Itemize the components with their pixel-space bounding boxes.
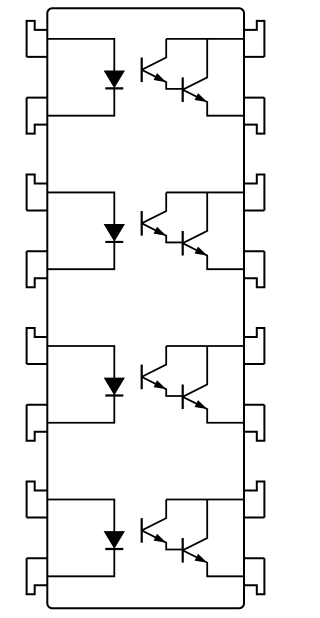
pin 15 (emitter, channel 1) <box>244 98 264 134</box>
wire: collector rail to pin 16, channel 1 <box>166 38 244 40</box>
wire: collector rail to pin 10, channel 4 <box>166 499 244 501</box>
pin 6 (LED 3 cathode) <box>27 405 48 441</box>
pin 13 (emitter, channel 2) <box>244 251 264 287</box>
LED D2 <box>105 225 125 242</box>
pin 16 (collector, channel 1) <box>244 21 264 57</box>
phototransistor Q1a (Darlington input) <box>142 39 183 89</box>
phototransistor Q4a (Darlington input) <box>142 500 183 550</box>
transistor Q3b (Darlington output) <box>183 346 244 423</box>
pin 11 (emitter, channel 3) <box>244 405 264 441</box>
pin 1 (LED 1 anode) <box>27 21 48 57</box>
wire: LED D2 cathode to pin 4 <box>47 241 114 269</box>
LED D4 <box>105 532 125 549</box>
wire: collector rail to pin 12, channel 3 <box>166 345 244 347</box>
wire: pin 1 to LED D1 anode <box>47 39 114 71</box>
transistor Q4b (Darlington output) <box>183 500 244 577</box>
wire: LED D3 cathode to pin 6 <box>47 394 114 422</box>
pin 9 (emitter, channel 4) <box>244 558 264 594</box>
wire: collector rail to pin 14, channel 2 <box>166 191 244 193</box>
pin 14 (collector, channel 2) <box>244 174 264 210</box>
wire: LED D1 cathode to pin 2 <box>47 87 114 115</box>
wire: pin 5 to LED D3 anode <box>47 346 114 378</box>
pin 12 (collector, channel 3) <box>244 328 264 364</box>
LED D1 <box>105 71 125 88</box>
pin 2 (LED 1 cathode) <box>27 98 48 134</box>
pin 3 (LED 2 anode) <box>27 174 48 210</box>
phototransistor Q3a (Darlington input) <box>142 346 183 396</box>
IC body outline U1 <box>47 8 244 608</box>
wire: LED D4 cathode to pin 8 <box>47 548 114 576</box>
pin 4 (LED 2 cathode) <box>27 251 48 287</box>
pin 5 (LED 3 anode) <box>27 328 48 364</box>
pin 8 (LED 4 cathode) <box>27 558 48 594</box>
transistor Q2b (Darlington output) <box>183 192 244 269</box>
transistor Q1b (Darlington output) <box>183 39 244 116</box>
LED D3 <box>105 378 125 395</box>
pin 10 (collector, channel 4) <box>244 482 264 518</box>
wire: pin 7 to LED D4 anode <box>47 500 114 532</box>
wire: pin 3 to LED D2 anode <box>47 192 114 224</box>
pin 7 (LED 4 anode) <box>27 482 48 518</box>
phototransistor Q2a (Darlington input) <box>142 192 183 242</box>
